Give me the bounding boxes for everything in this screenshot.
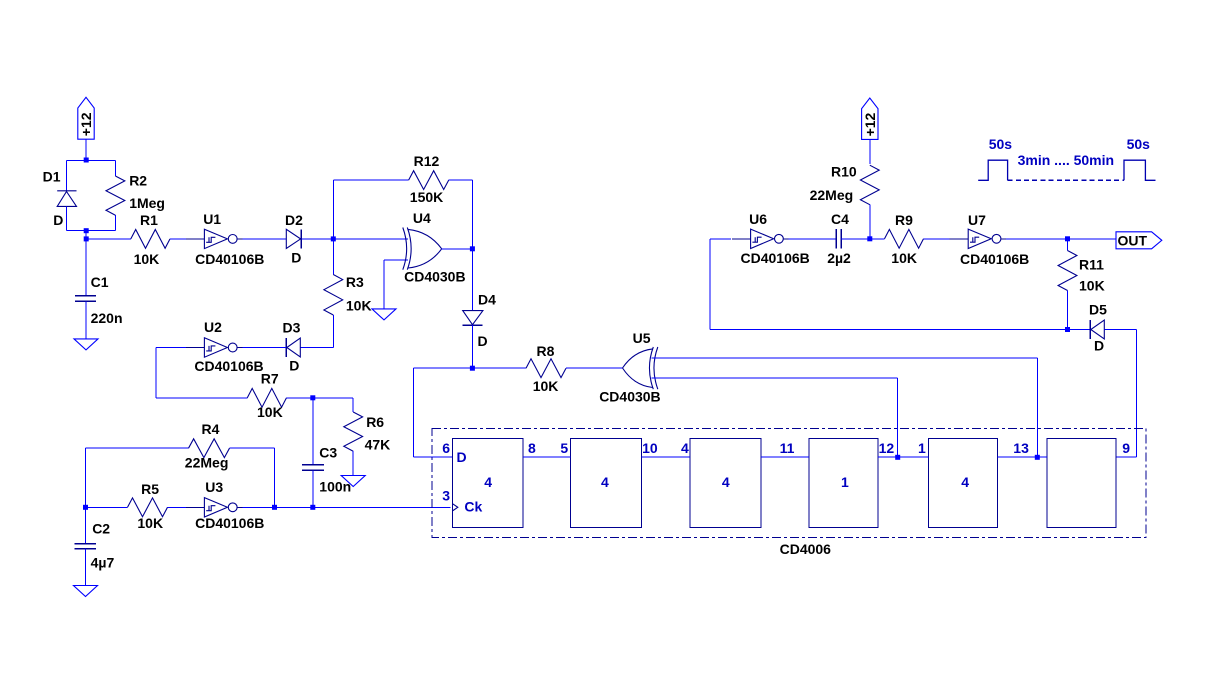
- pin label 11: [780, 440, 795, 456]
- svg-text:CD4006: CD4006: [780, 541, 832, 557]
- wire R8 row left: [414, 367, 526, 369]
- label 3min .... 50min: [1018, 152, 1114, 168]
- svg-text:R10: R10: [831, 163, 857, 179]
- resistor R5: [128, 498, 168, 517]
- svg-text:R3: R3: [346, 274, 364, 290]
- label R4: [202, 421, 220, 437]
- wire bottom rail: [67, 230, 116, 232]
- resistor R10: [860, 165, 879, 205]
- pin label 4: [722, 474, 730, 490]
- svg-text:1: 1: [841, 474, 849, 490]
- clock input arrow (pin 3): [452, 504, 458, 511]
- node pin 13: [1035, 455, 1040, 460]
- wire C1 to ground: [85, 301, 87, 339]
- resistor R7: [247, 388, 286, 407]
- timing waveform pulse 1: [978, 160, 1007, 180]
- pin label 4: [601, 474, 609, 490]
- label U2: [204, 319, 222, 335]
- svg-text:OUT: OUT: [1118, 232, 1148, 248]
- inverter U7 CD40106B: [950, 229, 1007, 248]
- pin label 5: [560, 440, 568, 456]
- resistor R2: [106, 161, 125, 231]
- svg-text:C2: C2: [92, 521, 110, 537]
- svg-text:CD40106B: CD40106B: [741, 250, 810, 266]
- pin label 4: [961, 474, 969, 490]
- diode D1: [57, 191, 76, 207]
- label 10K: [1079, 278, 1105, 294]
- wire R3 bottom lead: [332, 315, 334, 348]
- wire R4 top right: [230, 447, 275, 449]
- svg-text:R9: R9: [895, 212, 913, 228]
- diode D3: [286, 338, 300, 357]
- svg-text:R12: R12: [414, 153, 440, 169]
- wire stage3-stage4 (pin 11): [761, 456, 809, 458]
- svg-text:50s: 50s: [989, 136, 1013, 152]
- label R2: [129, 173, 147, 189]
- svg-text:13: 13: [1013, 440, 1029, 456]
- power flag +12 (left supply): [78, 97, 94, 139]
- label R5: [141, 481, 159, 497]
- wire to R7: [156, 397, 247, 399]
- wire feedback bottom: [710, 329, 1067, 331]
- svg-text:10K: 10K: [137, 515, 163, 531]
- ground (C2): [74, 586, 98, 597]
- wire C4 to node D: [841, 238, 870, 240]
- svg-text:6: 6: [442, 440, 450, 456]
- wire D5 column to pin 9: [1135, 330, 1137, 458]
- wire to D4: [471, 249, 473, 311]
- flag OUT: [1116, 232, 1162, 249]
- pin label 13: [1013, 440, 1029, 456]
- wire R5 to U3: [168, 506, 187, 508]
- svg-text:3min .... 50min: 3min .... 50min: [1018, 152, 1114, 168]
- wire U2 out to D3: [242, 347, 286, 349]
- resistor R4: [189, 439, 230, 458]
- wire C3 bottom lead: [312, 470, 314, 507]
- svg-text:D: D: [478, 333, 488, 349]
- wire U5 input top: [652, 357, 1038, 359]
- wire C3 top lead: [312, 398, 314, 465]
- CD4006 register stage 4: [809, 438, 878, 527]
- label R10: [831, 163, 857, 179]
- wire to pin 6: [414, 456, 453, 458]
- svg-text:100n: 100n: [319, 479, 351, 495]
- svg-text:CD40106B: CD40106B: [195, 251, 264, 267]
- ground (C1): [74, 339, 98, 350]
- wire U4 output: [442, 248, 473, 250]
- resistor R3: [324, 275, 343, 316]
- wire top rail: [67, 160, 116, 162]
- label D4: [478, 292, 496, 308]
- wire D2 to node A: [301, 238, 333, 240]
- wire R7 to node C: [287, 397, 313, 399]
- svg-text:10K: 10K: [134, 251, 160, 267]
- wire C2 to ground: [85, 549, 87, 586]
- wire R12 top left: [333, 179, 408, 181]
- label 10K: [257, 404, 283, 420]
- label D5: [1089, 301, 1107, 317]
- pin label 8: [528, 440, 536, 456]
- resistor R11: [1058, 251, 1077, 291]
- label C3: [319, 445, 337, 461]
- wire node F to D5: [1068, 329, 1091, 331]
- svg-text:10K: 10K: [891, 250, 917, 266]
- svg-text:4: 4: [722, 474, 730, 490]
- svg-text:D: D: [1094, 338, 1104, 354]
- label 22Meg: [810, 187, 854, 203]
- wire R1 to U1: [170, 238, 186, 240]
- svg-text:4µ7: 4µ7: [91, 555, 115, 571]
- label 10K: [891, 250, 917, 266]
- svg-text:1: 1: [918, 440, 926, 456]
- label 10K: [134, 251, 160, 267]
- svg-text:+12: +12: [862, 112, 878, 136]
- wire C1 top lead: [85, 239, 87, 296]
- resistor R6: [344, 412, 363, 451]
- wire D5 to corner: [1104, 329, 1136, 331]
- wire U2 input drop: [155, 348, 157, 398]
- svg-text:R11: R11: [1079, 256, 1104, 272]
- capacitor C2: [75, 544, 96, 549]
- wire D1 top lead: [66, 161, 68, 191]
- svg-text:10K: 10K: [533, 378, 559, 394]
- svg-text:U6: U6: [749, 211, 767, 227]
- svg-text:+12: +12: [78, 112, 94, 136]
- label 220n: [91, 310, 123, 326]
- svg-text:U3: U3: [205, 479, 223, 495]
- wire rail to R1 tap: [85, 231, 87, 239]
- label 10K: [346, 298, 372, 314]
- capacitor C1: [75, 296, 96, 301]
- svg-text:D2: D2: [285, 212, 303, 228]
- xor gate U5 CD4030B: [623, 347, 658, 389]
- label CD40106B: [195, 515, 264, 531]
- svg-text:1Meg: 1Meg: [129, 195, 165, 211]
- svg-text:D1: D1: [43, 168, 61, 184]
- svg-text:4: 4: [961, 474, 969, 490]
- inverter U1 CD40106B: [186, 229, 243, 248]
- svg-text:R4: R4: [202, 421, 220, 437]
- wire R11 top lead: [1067, 239, 1069, 251]
- CD4006 outer dash-dot box: [432, 429, 1146, 538]
- label C4: [831, 211, 849, 227]
- svg-text:12: 12: [879, 440, 895, 456]
- label U4: [413, 210, 431, 226]
- label D: [289, 358, 299, 374]
- svg-text:220n: 220n: [91, 310, 123, 326]
- wire +12 to R10: [869, 139, 871, 164]
- wire U3 out to clock pin 3: [242, 506, 450, 508]
- wire R12 left leg: [332, 180, 334, 239]
- wire R3 top lead: [332, 239, 334, 275]
- label D1: [43, 168, 61, 184]
- resistor R8: [526, 359, 566, 378]
- svg-text:C3: C3: [319, 445, 337, 461]
- svg-text:CD4030B: CD4030B: [599, 389, 660, 405]
- node R4/R5/C2: [83, 505, 88, 510]
- svg-text:U5: U5: [633, 330, 651, 346]
- wire R12 top right: [449, 179, 473, 181]
- svg-text:R8: R8: [537, 343, 555, 359]
- label 50s right: [1127, 136, 1151, 152]
- svg-text:R7: R7: [261, 370, 279, 386]
- label D: [1094, 338, 1104, 354]
- label R6: [366, 414, 384, 430]
- wire stage1-stage2 (pin 8-5): [523, 456, 571, 458]
- wire U2 input left: [156, 347, 186, 349]
- svg-text:3: 3: [442, 487, 450, 503]
- svg-text:R2: R2: [129, 173, 147, 189]
- timing waveform pulse 2: [1124, 160, 1156, 180]
- svg-text:4: 4: [484, 474, 492, 490]
- svg-text:R5: R5: [141, 481, 159, 497]
- svg-text:10K: 10K: [346, 298, 372, 314]
- svg-text:D3: D3: [283, 320, 301, 336]
- svg-text:CD40106B: CD40106B: [960, 251, 1029, 267]
- label R7: [261, 370, 279, 386]
- xor gate U4 CD4030B: [403, 228, 442, 270]
- label CD40106B: [194, 358, 263, 374]
- wire R11 bottom lead: [1067, 291, 1069, 330]
- wire U4 input B: [384, 259, 408, 261]
- wire R10 bottom lead: [869, 205, 871, 239]
- node pin 12: [895, 455, 900, 460]
- label U1: [203, 211, 221, 227]
- node B (D4/R8 wire): [470, 366, 475, 371]
- pin label 1: [841, 474, 849, 490]
- label 10K: [137, 515, 163, 531]
- label CD4030B: [404, 269, 465, 285]
- wire R9 to U7: [924, 238, 950, 240]
- label C1: [91, 274, 109, 290]
- node bottom rail: [84, 228, 89, 233]
- label R3: [346, 274, 364, 290]
- svg-text:5: 5: [560, 440, 568, 456]
- svg-text:50s: 50s: [1127, 136, 1151, 152]
- node R1/C1 tap: [84, 236, 89, 241]
- pin label 6: [442, 440, 450, 456]
- node E (U7 out/R11): [1065, 236, 1070, 241]
- node top rail D1/R2: [84, 158, 89, 163]
- svg-text:D5: D5: [1089, 301, 1107, 317]
- label CD4030B: [599, 389, 660, 405]
- label R11: [1079, 256, 1104, 272]
- wire D4 to node B: [471, 325, 473, 368]
- wire R5 left: [86, 506, 128, 508]
- svg-text:Ck: Ck: [464, 498, 482, 514]
- pin label 9: [1122, 440, 1130, 456]
- label R9: [895, 212, 913, 228]
- svg-text:R6: R6: [366, 414, 384, 430]
- label CD4006: [780, 541, 832, 557]
- svg-text:11: 11: [780, 440, 795, 456]
- pin label 10: [642, 440, 658, 456]
- svg-text:10K: 10K: [1079, 278, 1105, 294]
- label D3: [283, 320, 301, 336]
- label D: [478, 333, 488, 349]
- label U7: [968, 212, 986, 228]
- svg-text:C4: C4: [831, 211, 849, 227]
- node U4 out / D4 top: [470, 246, 475, 251]
- label R8: [537, 343, 555, 359]
- inverter U2 CD40106B: [186, 338, 243, 357]
- svg-text:9: 9: [1122, 440, 1130, 456]
- svg-text:C1: C1: [91, 274, 109, 290]
- label D: [291, 249, 301, 265]
- svg-text:22Meg: 22Meg: [185, 454, 229, 470]
- inverter U6 CD40106B: [732, 229, 789, 248]
- svg-text:U7: U7: [968, 212, 986, 228]
- svg-text:4: 4: [681, 440, 689, 456]
- resistor R1: [131, 230, 170, 249]
- wire U6 input top: [710, 238, 731, 240]
- wire pin 9: [1116, 456, 1136, 458]
- pin label 1: [918, 440, 926, 456]
- CD4006 register stage 1 (pins 6/3/8): [452, 438, 523, 527]
- resistor R12: [409, 171, 449, 190]
- label D2: [285, 212, 303, 228]
- resistor R9: [885, 229, 924, 248]
- label R1: [140, 212, 158, 228]
- wire U6 out to C4: [789, 238, 837, 240]
- wire C2 top lead: [85, 507, 87, 543]
- wire R6 top lead: [352, 398, 354, 412]
- CD4006 register stage 6: [1047, 438, 1116, 527]
- wire stage5-stage6 (pin 13): [998, 456, 1048, 458]
- diode D5: [1090, 320, 1104, 339]
- wire node C to R6 corner: [313, 397, 353, 399]
- svg-text:10K: 10K: [257, 404, 283, 420]
- capacitor C4: [836, 229, 841, 248]
- label CD40106B: [195, 251, 264, 267]
- svg-text:CD4030B: CD4030B: [404, 269, 465, 285]
- diode D2: [286, 229, 301, 248]
- node A (D2/R12/R3/U4): [331, 236, 336, 241]
- node U3 out / R4: [272, 505, 277, 510]
- ground (U4 input): [372, 309, 396, 320]
- wire U4 input B to ground: [383, 260, 385, 309]
- svg-text:47K: 47K: [365, 437, 391, 453]
- wire R4 top left: [86, 447, 189, 449]
- svg-text:D: D: [291, 249, 301, 265]
- node D (R10/C4/R9): [867, 236, 872, 241]
- diode D4: [463, 311, 483, 326]
- wire U4 input A: [333, 238, 408, 240]
- label 4µ7: [91, 555, 115, 571]
- label CD40106B: [741, 250, 810, 266]
- wire stage4-stage5 (pin 12-1): [878, 456, 929, 458]
- pin label D: [457, 449, 467, 465]
- wire R4 left leg: [85, 448, 87, 507]
- wire U5 input bottom: [652, 377, 898, 379]
- wire feedback left leg: [709, 239, 711, 330]
- label 10K: [533, 378, 559, 394]
- wire R4 right leg: [274, 448, 276, 507]
- label C2: [92, 521, 110, 537]
- svg-text:U4: U4: [413, 210, 431, 226]
- svg-text:22Meg: 22Meg: [810, 187, 854, 203]
- wire R12 right leg: [471, 180, 473, 249]
- label 22Meg: [185, 454, 229, 470]
- CD4006 register stage 3: [690, 438, 761, 527]
- label 50s left: [989, 136, 1013, 152]
- svg-text:D: D: [289, 358, 299, 374]
- timing waveform dashed interval: [1008, 179, 1124, 181]
- inverter U3 CD40106B: [186, 498, 243, 517]
- wire R6 to ground: [352, 451, 354, 475]
- pin label 12: [879, 440, 895, 456]
- svg-text:U1: U1: [203, 211, 221, 227]
- CD4006 register stage 5: [929, 438, 998, 527]
- label D: [53, 212, 63, 228]
- capacitor C3: [302, 465, 324, 470]
- svg-text:D4: D4: [478, 292, 496, 308]
- wire U1 out to D2: [242, 238, 286, 240]
- pin label Ck: [464, 498, 482, 514]
- label 100n: [319, 479, 351, 495]
- svg-text:10: 10: [642, 440, 658, 456]
- wire stage2-stage3 (pin 10-4): [642, 456, 691, 458]
- svg-text:R1: R1: [140, 212, 158, 228]
- wire U5 top input drop to pin 13: [1036, 358, 1038, 457]
- wire D1 bottom lead: [66, 206, 68, 230]
- label CD40106B: [960, 251, 1029, 267]
- svg-text:150K: 150K: [410, 189, 443, 205]
- CD4006 register stage 2: [571, 438, 642, 527]
- wire R3 to D3: [301, 347, 334, 349]
- svg-text:8: 8: [528, 440, 536, 456]
- pin label 3: [442, 487, 450, 503]
- node C (R7/C3/R6): [310, 395, 315, 400]
- wire D column down: [413, 368, 415, 457]
- label U5: [633, 330, 651, 346]
- pin label 4: [484, 474, 492, 490]
- wire U7 out to OUT flag: [1006, 238, 1116, 240]
- label 47K: [365, 437, 391, 453]
- svg-text:CD40106B: CD40106B: [194, 358, 263, 374]
- svg-text:D: D: [457, 449, 467, 465]
- ground (R6): [341, 476, 365, 487]
- label 150K: [410, 189, 443, 205]
- pin label 4: [681, 440, 689, 456]
- svg-text:D: D: [53, 212, 63, 228]
- label U3: [205, 479, 223, 495]
- wire U5 bottom input drop to pin 12: [897, 378, 899, 457]
- wire R8 to U5 output: [566, 367, 623, 369]
- svg-text:CD40106B: CD40106B: [195, 515, 264, 531]
- node F (R11/D5/feedback): [1065, 327, 1070, 332]
- svg-text:4: 4: [601, 474, 609, 490]
- label 2µ2: [827, 250, 851, 266]
- svg-text:U2: U2: [204, 319, 222, 335]
- label 1Meg: [129, 195, 165, 211]
- label U6: [749, 211, 767, 227]
- power flag +12 (right supply): [862, 98, 878, 139]
- svg-text:2µ2: 2µ2: [827, 250, 851, 266]
- wire +12 flag to node: [85, 139, 87, 160]
- wire node D to R9: [870, 238, 885, 240]
- node C3/clock wire: [310, 505, 315, 510]
- label R12: [414, 153, 440, 169]
- wire R1 left: [86, 238, 131, 240]
